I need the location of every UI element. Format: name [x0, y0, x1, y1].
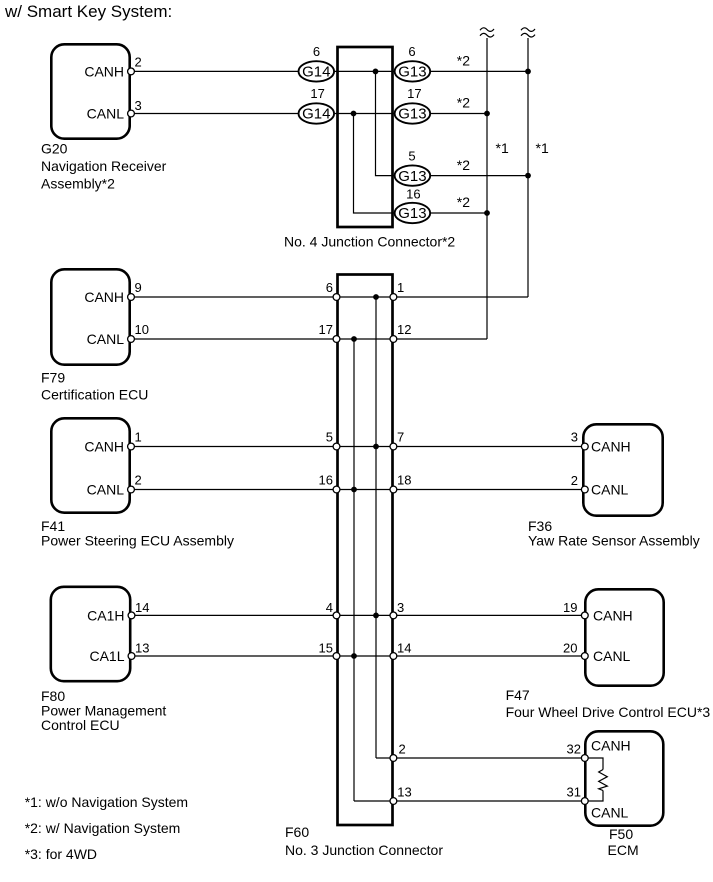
- svg-text:17: 17: [310, 86, 324, 101]
- svg-text:G13: G13: [398, 64, 426, 81]
- pin number 2 (F36): [571, 473, 578, 488]
- pin number 17 (G14): [310, 86, 324, 101]
- pin number 13 (F80): [135, 641, 149, 656]
- terminal No.3 pin 12: [390, 336, 397, 343]
- connector G14 pin 6: [299, 61, 335, 81]
- pin number 19 (F47): [563, 600, 577, 615]
- wire G14 pin 17 through No.4 junction connector to G13 pin 17: [335, 113, 395, 115]
- terminal No.3 pin 16: [333, 486, 340, 493]
- svg-text:15: 15: [319, 641, 333, 656]
- pin number 32 (F50): [567, 742, 581, 757]
- svg-text:CANL: CANL: [593, 648, 631, 664]
- svg-text:G20: G20: [41, 140, 68, 156]
- No.3 junction connector F60 body: [338, 275, 393, 826]
- pin number 6 (G14): [313, 44, 320, 59]
- terminal F47 pin 20: [581, 653, 588, 660]
- svg-text:Control ECU: Control ECU: [41, 717, 120, 733]
- wire G13 pin 5 to CANH bus: [431, 175, 528, 177]
- terminal No.3 pin 17: [333, 336, 340, 343]
- pin number 3 (F36): [571, 430, 578, 445]
- pin number 13 (No.3 right): [397, 785, 411, 800]
- svg-text:CANL: CANL: [87, 331, 125, 347]
- wire G14 pin 6 through No.4 junction connector to G13 pin 6: [335, 70, 395, 72]
- pin number 14 (No.3 right): [397, 641, 411, 656]
- junction dot No.4 row 6: [373, 69, 379, 75]
- svg-text:w/ Smart Key System:: w/ Smart Key System:: [4, 2, 172, 21]
- junction dot No.3 pin 7 row: [373, 444, 379, 450]
- No.4 junction connector body: [338, 47, 393, 227]
- svg-text:1: 1: [135, 430, 142, 445]
- wire G20 CANL to connector G14 pin 17: [134, 113, 298, 115]
- pin name CANH (F36): [591, 439, 631, 455]
- wire F41 CANH to No.3 junction connector pin 5 / pin 7 to F36 CANH: [134, 446, 582, 448]
- pin name CANL (F50): [591, 805, 629, 821]
- svg-text:*1: w/o Navigation System: *1: w/o Navigation System: [25, 794, 188, 810]
- svg-text:20: 20: [563, 641, 577, 656]
- svg-text:No. 4 Junction Connector*2: No. 4 Junction Connector*2: [284, 234, 455, 250]
- pin number 31 (F50): [567, 785, 581, 800]
- svg-text:CANL: CANL: [87, 482, 125, 498]
- svg-text:CA1L: CA1L: [89, 648, 124, 664]
- footnote *1 w/o Navigation System: [25, 794, 188, 810]
- terminal No.3 pin 18: [390, 486, 397, 493]
- junction dot No.3 pin 12 row: [351, 336, 357, 342]
- wire branch inside No.4 junction connector to G13 pin 5: [376, 71, 395, 175]
- terminal G20 pin 3: [128, 110, 135, 117]
- CANH bus vertical wire (w/o navigation): [527, 38, 529, 297]
- pin number 2 (No.3 right): [399, 742, 406, 757]
- svg-text:CANL: CANL: [591, 482, 629, 498]
- svg-text:2: 2: [135, 473, 142, 488]
- svg-text:CANH: CANH: [591, 738, 631, 754]
- ECM F50 body: [585, 731, 663, 825]
- terminal No.3 pin 6: [333, 294, 340, 301]
- pin number 3 (No.3 right): [397, 600, 404, 615]
- label F50 ECM: [608, 826, 639, 858]
- pin number 4 (No.3 left): [326, 600, 333, 615]
- title: [4, 2, 172, 21]
- svg-text:17: 17: [407, 86, 421, 101]
- terminal G20 pin 2: [128, 68, 135, 75]
- pin number 2 (F41): [135, 473, 142, 488]
- svg-text:F47: F47: [506, 687, 530, 703]
- svg-text:5: 5: [408, 149, 415, 164]
- svg-text:*2: *2: [457, 194, 470, 210]
- svg-text:F79: F79: [41, 370, 65, 386]
- CANL bus wire inside No.3 junction connector to pin 13: [353, 339, 355, 801]
- junction dot CANL bus row 16: [484, 210, 490, 216]
- label F47 Four Wheel Drive Control ECU: [506, 687, 711, 720]
- note *2 on wire G13-17: [457, 95, 470, 111]
- wire G20 CANH to connector G14 pin 6: [134, 70, 298, 72]
- pin number 7 (No.3 right): [397, 430, 404, 445]
- svg-text:F60: F60: [285, 824, 309, 840]
- label F80 Power Management Control ECU: [41, 688, 166, 733]
- terminal No.3 pin 2: [390, 755, 397, 762]
- label F79 Certification ECU: [41, 370, 148, 403]
- note *1 on CANL bus: [496, 140, 509, 156]
- terminal No.3 pin 3: [390, 612, 397, 619]
- svg-text:19: 19: [563, 600, 577, 615]
- pin name CA1L (F80): [89, 648, 124, 664]
- label G20 Navigation Receiver Assembly: [41, 140, 167, 191]
- pin name CANL (F36): [591, 482, 629, 498]
- wire branch inside No.4 junction connector to G13 pin 16: [354, 114, 395, 214]
- terminal No.3 pin 5: [333, 443, 340, 450]
- terminal F79 pin 9: [128, 294, 135, 301]
- terminal F36 pin 3: [581, 443, 588, 450]
- pin number 12 (No.3 right): [397, 322, 411, 337]
- terminal F50 pin 32: [581, 755, 588, 762]
- svg-text:CANL: CANL: [591, 805, 629, 821]
- svg-text:32: 32: [567, 742, 581, 757]
- label F60 No.3 junction connector: [285, 824, 443, 858]
- svg-text:*2: *2: [457, 95, 470, 111]
- pin number 3 (G20): [135, 98, 142, 113]
- svg-text:*2: *2: [457, 157, 470, 173]
- terminating resistor inside F50: [587, 758, 607, 801]
- wire G13 pin 6 to CANH bus: [431, 70, 528, 72]
- wire F79 CANL to No.3 junction connector pin 17 / pin 12 to CANL bus: [134, 338, 487, 340]
- connector G13 pin 6: [395, 61, 431, 81]
- svg-text:3: 3: [135, 98, 142, 113]
- terminal F41 pin 1: [128, 443, 135, 450]
- svg-text:6: 6: [313, 44, 320, 59]
- pin number 2 (G20): [135, 54, 142, 69]
- terminal No.3 pin 1: [390, 294, 397, 301]
- pin number 1 (No.3 right): [397, 280, 404, 295]
- pin number 9 (F79): [135, 280, 142, 295]
- pin name CA1H (F80): [87, 607, 124, 623]
- pin name CANH (F41): [84, 439, 124, 455]
- terminal F50 pin 31: [581, 798, 588, 805]
- pin number 14 (F80): [135, 600, 149, 615]
- svg-text:1: 1: [397, 280, 404, 295]
- svg-text:18: 18: [397, 473, 411, 488]
- terminal F80 pin 14: [128, 612, 135, 619]
- wire F80 CA1H to No.3 junction connector pin 4 / pin 3 to F47 CANH: [135, 614, 582, 616]
- ECU G20 body: [51, 44, 129, 138]
- pin number 18 (No.3 right): [397, 473, 411, 488]
- junction dot No.3 pin 18 row: [351, 487, 357, 493]
- svg-text:CANL: CANL: [87, 106, 125, 122]
- terminal No.3 pin 14: [390, 653, 397, 660]
- svg-text:3: 3: [397, 600, 404, 615]
- junction dot CANH bus row 5: [525, 173, 531, 179]
- svg-text:CANH: CANH: [84, 63, 124, 79]
- svg-text:13: 13: [397, 785, 411, 800]
- svg-text:4: 4: [326, 600, 333, 615]
- svg-text:Assembly*2: Assembly*2: [41, 176, 115, 192]
- pin number 10 (F79): [135, 322, 149, 337]
- pin name CANL (F47): [593, 648, 631, 664]
- pin number 5 (G13): [408, 149, 415, 164]
- terminal No.3 pin 7: [390, 443, 397, 450]
- pin name CANH (F47): [593, 607, 633, 623]
- ECU F79 body: [51, 269, 129, 364]
- svg-text:Four Wheel Drive Control ECU*3: Four Wheel Drive Control ECU*3: [506, 704, 711, 720]
- svg-text:2: 2: [135, 54, 142, 69]
- ECU F41 body: [51, 418, 129, 512]
- pin number 1 (F41): [135, 430, 142, 445]
- terminal F41 pin 2: [128, 486, 135, 493]
- pin number 16 (No.3 left): [319, 473, 333, 488]
- svg-text:No. 3 Junction Connector: No. 3 Junction Connector: [285, 842, 443, 858]
- pin name CANL (F79): [87, 331, 125, 347]
- junction dot CANL bus row 17: [484, 111, 490, 117]
- terminal No.3 pin 15: [333, 653, 340, 660]
- wire No.3 junction connector pin 2 to F50 CANH: [376, 757, 582, 759]
- footnote *3 for 4WD: [25, 846, 97, 862]
- break symbol on CANH bus: [521, 28, 535, 37]
- svg-text:10: 10: [135, 322, 149, 337]
- svg-text:*3: for 4WD: *3: for 4WD: [25, 846, 97, 862]
- svg-text:CANH: CANH: [593, 607, 633, 623]
- svg-text:6: 6: [326, 280, 333, 295]
- svg-text:*1: *1: [496, 140, 509, 156]
- svg-text:*1: *1: [536, 140, 549, 156]
- wire G13 pin 17 to CANL bus: [431, 113, 487, 115]
- svg-text:CA1H: CA1H: [87, 607, 124, 623]
- svg-text:F50: F50: [609, 826, 633, 842]
- connector G13 pin 5: [395, 165, 431, 185]
- connector G14 pin 17: [299, 103, 335, 123]
- svg-text:3: 3: [571, 430, 578, 445]
- svg-text:2: 2: [571, 473, 578, 488]
- svg-text:13: 13: [135, 641, 149, 656]
- wire G13 pin 16 to CANL bus: [431, 212, 487, 214]
- label F36 Yaw Rate Sensor Assembly: [528, 518, 700, 549]
- pin name CANH (G20): [84, 63, 124, 79]
- wire F79 CANH to No.3 junction connector pin 6 / pin 1 to CANH bus: [134, 296, 528, 298]
- svg-text:12: 12: [397, 322, 411, 337]
- svg-text:16: 16: [319, 473, 333, 488]
- svg-text:6: 6: [408, 44, 415, 59]
- svg-text:16: 16: [406, 186, 420, 201]
- pin number 6 (No.3 left): [326, 280, 333, 295]
- svg-text:17: 17: [319, 322, 333, 337]
- svg-text:G13: G13: [398, 168, 426, 185]
- terminal No.3 pin 4: [333, 612, 340, 619]
- label F41 Power Steering ECU Assembly: [41, 518, 234, 549]
- svg-text:CANH: CANH: [591, 439, 631, 455]
- connector G13 pin 17: [395, 103, 431, 123]
- pin number 17 (G13): [407, 86, 421, 101]
- pin number 6 (G13): [408, 44, 415, 59]
- svg-text:G13: G13: [398, 106, 426, 123]
- pin number 16 (G13): [406, 186, 420, 201]
- terminal F79 pin 10: [128, 336, 135, 343]
- svg-text:CANH: CANH: [84, 289, 124, 305]
- pin name CANL (F41): [87, 482, 125, 498]
- svg-text:Power Steering ECU Assembly: Power Steering ECU Assembly: [41, 533, 234, 549]
- ECU F80 body: [51, 587, 130, 681]
- svg-text:2: 2: [399, 742, 406, 757]
- note *1 on CANH bus: [536, 140, 549, 156]
- svg-text:G13: G13: [398, 205, 426, 222]
- wire F80 CA1L to No.3 junction connector pin 15 / pin 14 to F47 CANL: [135, 655, 582, 657]
- pin name CANL (G20): [87, 106, 125, 122]
- ECU F47 body: [585, 589, 663, 685]
- svg-text:7: 7: [397, 430, 404, 445]
- CANH bus wire inside No.3 junction connector to pin 2: [375, 297, 377, 758]
- svg-text:*2: w/ Navigation System: *2: w/ Navigation System: [25, 820, 181, 836]
- pin name CANH (F50): [591, 738, 631, 754]
- terminal No.3 pin 13: [390, 798, 397, 805]
- junction dot No.4 row 17: [351, 111, 357, 117]
- footnote *2 w/ Navigation System: [25, 820, 181, 836]
- junction dot No.3 pin 14 row: [351, 653, 357, 659]
- svg-text:Yaw Rate Sensor Assembly: Yaw Rate Sensor Assembly: [528, 533, 700, 549]
- pin number 15 (No.3 left): [319, 641, 333, 656]
- pin number 20 (F47): [563, 641, 577, 656]
- connector G13 pin 16: [395, 203, 431, 223]
- terminal F36 pin 2: [581, 486, 588, 493]
- label No.4 junction connector: [284, 234, 455, 250]
- svg-text:14: 14: [397, 641, 411, 656]
- CANL bus vertical wire (w/o navigation): [486, 38, 488, 339]
- pin number 5 (No.3 left): [326, 430, 333, 445]
- pin name CANH (F79): [84, 289, 124, 305]
- junction dot No.3 pin 3 row: [373, 613, 379, 619]
- svg-text:5: 5: [326, 430, 333, 445]
- junction dot CANH bus row 6: [525, 69, 531, 75]
- note *2 on wire G13-5: [457, 157, 470, 173]
- svg-text:14: 14: [135, 600, 149, 615]
- terminal F80 pin 13: [128, 653, 135, 660]
- terminal F47 pin 19: [581, 612, 588, 619]
- svg-text:Navigation Receiver: Navigation Receiver: [41, 158, 167, 174]
- sensor F36 body: [583, 424, 662, 515]
- wire F41 CANL to No.3 junction connector pin 16 / pin 18 to F36 CANL: [134, 489, 582, 491]
- svg-text:Certification ECU: Certification ECU: [41, 387, 148, 403]
- svg-text:CANH: CANH: [84, 439, 124, 455]
- svg-text:G14: G14: [302, 64, 330, 81]
- break symbol on CANL bus: [480, 28, 494, 37]
- note *2 on wire G13-16: [457, 194, 470, 210]
- note *2 on wire G13-6: [457, 53, 470, 69]
- wire No.3 junction connector pin 13 to F50 CANL: [354, 800, 582, 802]
- svg-text:G14: G14: [302, 106, 330, 123]
- svg-text:*2: *2: [457, 53, 470, 69]
- pin number 17 (No.3 left): [319, 322, 333, 337]
- svg-text:9: 9: [135, 280, 142, 295]
- svg-text:31: 31: [567, 785, 581, 800]
- svg-text:ECM: ECM: [608, 842, 639, 858]
- junction dot No.3 pin 1 row: [373, 294, 379, 300]
